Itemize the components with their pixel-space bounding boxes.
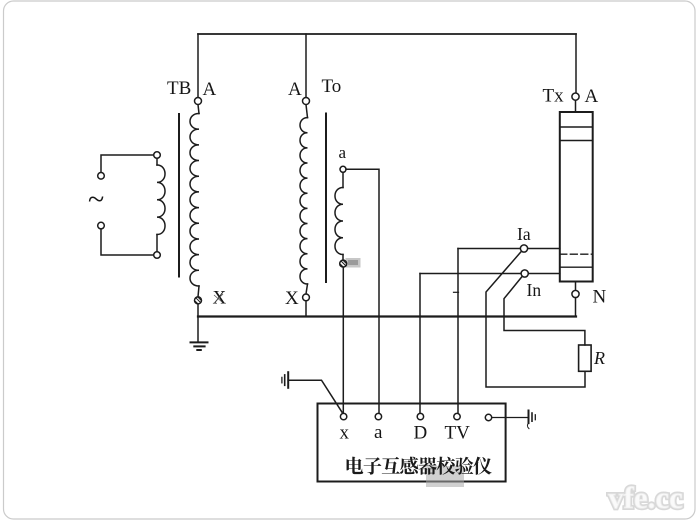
wire drop to Tx A <box>575 34 577 93</box>
svg-text:TB: TB <box>167 78 191 99</box>
scribble over X <box>214 294 223 302</box>
svg-text:a: a <box>339 143 347 162</box>
transformer To primary winding <box>300 105 308 294</box>
source primary coil L1 <box>157 158 165 251</box>
terminal circle TB X hatched <box>195 297 202 304</box>
device name 电子互感器校验仪 <box>347 457 492 475</box>
terminal circle box x <box>340 413 346 419</box>
terminal circle source TL <box>98 173 105 180</box>
svg-text:A: A <box>585 86 599 107</box>
wire D drop <box>419 274 421 414</box>
wire drop to To A <box>305 34 307 97</box>
ground bus (bottom) <box>198 315 576 317</box>
terminal circle N <box>572 290 579 297</box>
Tx internal line 2 <box>560 140 593 142</box>
smudge under device name <box>426 466 464 487</box>
svg-text:To: To <box>322 76 342 97</box>
terminal circle box ground <box>485 414 491 420</box>
earth ground left (sideways) <box>282 372 288 388</box>
source AC terminals and leads <box>101 155 154 255</box>
Tx device body <box>560 112 593 282</box>
svg-text:a: a <box>374 422 383 443</box>
wire TB X to ground <box>197 304 199 342</box>
Tx wire and terminal A <box>575 100 577 112</box>
svg-text:A: A <box>288 79 302 100</box>
svg-text:N: N <box>593 287 607 308</box>
calibrator box <box>318 404 506 482</box>
terminal circle Ia <box>520 245 527 252</box>
wire In slant to R loop <box>504 277 585 345</box>
svg-text:A: A <box>203 79 217 100</box>
svg-text:Tx: Tx <box>543 86 565 107</box>
terminal circle box D <box>417 413 423 419</box>
terminal x (To secondary) hatched <box>340 260 347 267</box>
smudge x label of small winding <box>346 258 361 268</box>
svg-text:R: R <box>593 348 605 368</box>
transformer TB secondary winding <box>190 105 199 297</box>
svg-text:D: D <box>414 423 428 444</box>
wire Tx to N <box>575 282 577 291</box>
wire In line <box>420 273 560 275</box>
terminal circle In <box>521 270 528 277</box>
right ground lead <box>492 417 529 419</box>
terminal circle To X <box>303 294 310 301</box>
svg-text:~: ~ <box>88 183 104 216</box>
terminal circle source BL <box>98 222 105 229</box>
terminal circle source TR <box>154 152 161 159</box>
wire To X to bus <box>305 301 307 317</box>
stray tick <box>454 291 459 293</box>
terminal circle a (To secondary) <box>340 166 346 172</box>
wire Ia slant to R loop <box>486 251 585 387</box>
earth ground TB <box>191 342 208 350</box>
transformer TB core <box>178 114 180 277</box>
svg-text:vfe.cc: vfe.cc <box>608 480 683 515</box>
terminal circle source BR <box>154 252 161 259</box>
wire drop to TB A <box>197 34 199 97</box>
Tx internal line 1 <box>560 126 593 128</box>
terminal circle To A <box>303 98 310 105</box>
Tx internal line 3 <box>560 266 593 268</box>
watermark vfe.cc <box>608 480 683 515</box>
transformer To core <box>325 114 327 283</box>
wire N to bus <box>575 298 577 317</box>
terminal circle Tx A <box>572 93 579 100</box>
svg-text:Ia: Ia <box>517 224 531 244</box>
terminal circle TB A <box>195 98 202 105</box>
wire TV drop <box>457 249 459 414</box>
left ground lead to box x <box>288 380 342 412</box>
svg-text:TV: TV <box>445 423 471 444</box>
svg-text:x: x <box>340 423 350 444</box>
terminal circle box a <box>375 413 381 419</box>
wire Ia line <box>458 248 560 250</box>
To secondary winding a-x <box>335 172 343 260</box>
earth ground right (sideways) <box>527 411 535 429</box>
Tx internal dashed line <box>560 253 593 255</box>
wire x terminal down to box x <box>342 267 344 413</box>
wire top bus <box>198 33 576 35</box>
resistor R <box>579 345 592 371</box>
terminal circle box TV <box>454 413 460 419</box>
svg-text:X: X <box>285 288 299 309</box>
svg-text:In: In <box>527 280 542 300</box>
wire a terminal to box a <box>346 169 379 413</box>
